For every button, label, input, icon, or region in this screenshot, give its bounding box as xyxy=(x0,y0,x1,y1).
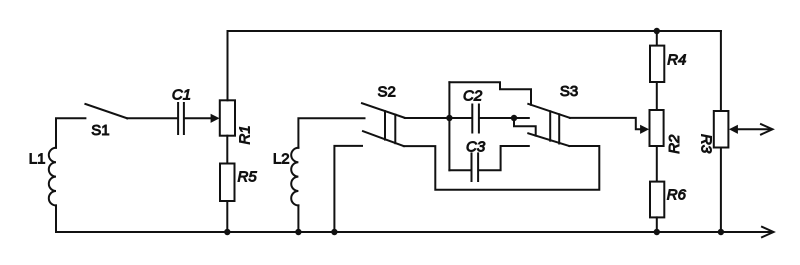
switch S3 top blade xyxy=(528,104,570,118)
svg-text:S1: S1 xyxy=(91,122,109,139)
wire R5 bottom xyxy=(226,201,228,232)
wire S1 to C1 xyxy=(127,117,177,119)
wire R2 to R6 xyxy=(656,146,658,182)
wire L2 top to S2 xyxy=(298,118,364,148)
node L2-rail junction xyxy=(295,229,301,235)
wire top rail to R4 xyxy=(656,31,658,46)
svg-text:R6: R6 xyxy=(667,186,687,203)
bottom rail output arrow xyxy=(762,227,774,237)
svg-text:R5: R5 xyxy=(238,168,258,185)
potentiometer R3 xyxy=(714,111,729,148)
svg-text:R1: R1 xyxy=(236,125,253,144)
capacitor C2 xyxy=(472,105,479,133)
svg-text:L1: L1 xyxy=(29,151,46,168)
svg-text:S3: S3 xyxy=(560,83,578,100)
svg-text:L2: L2 xyxy=(273,151,290,168)
wire L1 bottom xyxy=(55,205,57,232)
node R3-rail junction xyxy=(718,229,724,235)
wire L2 bottom xyxy=(297,205,299,232)
svg-text:C3: C3 xyxy=(466,138,486,155)
wire R1 top xyxy=(227,31,229,100)
svg-text:R4: R4 xyxy=(667,52,686,69)
wire L1 top to S1 xyxy=(56,118,85,148)
capacitor C3 xyxy=(472,153,479,181)
svg-text:S2: S2 xyxy=(378,84,396,101)
node S2 branch-rail junction xyxy=(331,229,337,235)
switch S2 bottom blade xyxy=(363,131,404,146)
node C2C3 bus junction xyxy=(446,115,452,121)
R3 wiper arrow xyxy=(729,125,771,134)
node top rail-R4 junction xyxy=(654,28,660,34)
wire bus to C2 xyxy=(449,117,471,119)
wire C3 to S3 contact xyxy=(479,146,529,170)
potentiometer R1 xyxy=(220,100,235,135)
wire top rail to R3 xyxy=(720,31,722,111)
switch S3 bottom blade xyxy=(528,133,569,146)
wire S3 to R2 wiper xyxy=(570,118,649,134)
switch S3 coupling bars xyxy=(550,111,559,143)
wire bottom rail xyxy=(56,231,772,233)
svg-text:R2: R2 xyxy=(666,134,683,154)
node C2-S3 junction xyxy=(511,115,517,121)
potentiometer R2 xyxy=(650,110,664,146)
wire S3 lower throw jog xyxy=(514,118,536,136)
svg-text:C2: C2 xyxy=(463,88,483,105)
wire S2 top pole to C2 bus xyxy=(405,117,450,119)
wire R3 bottom xyxy=(720,148,722,233)
resistor R4 xyxy=(650,46,664,82)
wire bus to C3 xyxy=(449,169,470,171)
switch S2 coupling bars xyxy=(385,111,395,143)
wire R4 to R2 xyxy=(656,82,658,110)
output arrow right xyxy=(761,124,773,134)
wire top rail xyxy=(228,30,721,32)
switch S1 blade xyxy=(85,104,127,118)
wire R1 to R5 xyxy=(226,136,228,164)
resistor R6 xyxy=(650,182,664,218)
wire R6 bottom xyxy=(656,217,658,232)
wire C2 to S3 contact xyxy=(480,117,529,119)
switch S2 top blade xyxy=(362,103,405,118)
node R6-rail junction xyxy=(654,229,660,235)
wire S2 bottom branch xyxy=(334,146,362,232)
node R5-rail junction xyxy=(224,229,230,235)
wire S2 bottom pole loop xyxy=(404,146,600,190)
svg-text:C1: C1 xyxy=(172,86,191,103)
capacitor C1 xyxy=(178,103,184,134)
wire C2C3 top jog to S3 xyxy=(449,82,531,105)
wire C1 to R1 wiper xyxy=(185,114,220,123)
svg-text:R3: R3 xyxy=(698,134,715,154)
inductor L2 xyxy=(291,148,298,206)
inductor L1 xyxy=(49,148,56,206)
wire C2C3 left bus xyxy=(448,82,450,170)
resistor R5 xyxy=(220,164,235,202)
